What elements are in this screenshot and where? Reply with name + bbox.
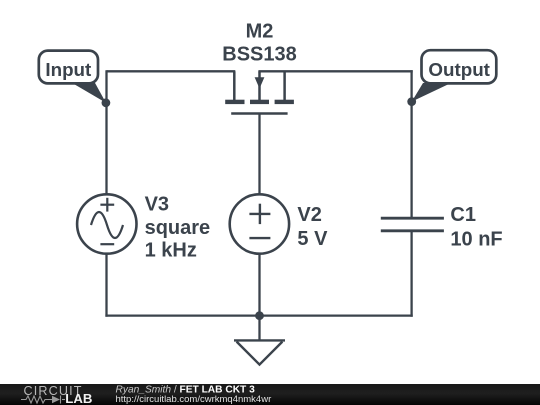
svg-text:http://circuitlab.com/cwrkmq4n: http://circuitlab.com/cwrkmq4nmk4wr — [116, 394, 272, 405]
svg-text:V2: V2 — [297, 204, 321, 226]
svg-text:1 kHz: 1 kHz — [145, 240, 197, 262]
svg-text:LAB: LAB — [65, 391, 92, 405]
svg-text:square: square — [145, 217, 211, 239]
svg-text:10 nF: 10 nF — [450, 228, 502, 250]
svg-text:Input: Input — [45, 59, 92, 80]
svg-text:V3: V3 — [145, 193, 169, 215]
svg-text:Output: Output — [428, 59, 490, 80]
svg-text:M2: M2 — [246, 20, 274, 42]
svg-text:BSS138: BSS138 — [222, 44, 297, 66]
svg-text:C1: C1 — [450, 204, 476, 226]
svg-text:5 V: 5 V — [297, 228, 328, 250]
